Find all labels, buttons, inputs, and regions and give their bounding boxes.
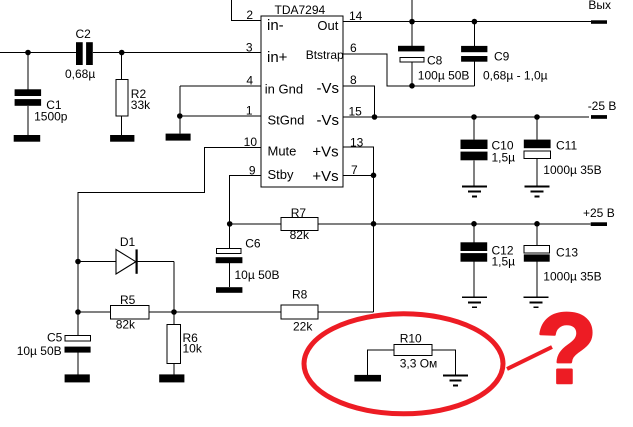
node -Vs/C10 junction xyxy=(471,114,477,120)
svg-text:-25 В: -25 В xyxy=(588,99,617,113)
svg-text:2: 2 xyxy=(246,8,253,22)
capacitor C10 xyxy=(461,117,516,186)
svg-text:C9: C9 xyxy=(494,50,510,64)
svg-text:10k: 10k xyxy=(183,341,203,355)
svg-text:C11: C11 xyxy=(556,139,577,153)
ground C12 xyxy=(462,297,487,307)
node out/C9 junction xyxy=(472,19,478,25)
svg-text:in+: in+ xyxy=(267,49,288,66)
svg-text:3,3 Ом: 3,3 Ом xyxy=(400,356,438,370)
ground C11 xyxy=(525,186,550,196)
wire pin 6 Btstrap path xyxy=(343,54,475,86)
terminal +25 В xyxy=(591,222,607,226)
node pin7 junction xyxy=(371,173,377,179)
wire pin 7 xyxy=(343,174,374,176)
capacitor C6 xyxy=(216,224,280,287)
svg-text:C5: C5 xyxy=(47,331,63,345)
ground C1 xyxy=(14,135,41,142)
svg-text:Mute: Mute xyxy=(268,144,297,159)
ground R2 xyxy=(110,135,134,142)
node +rail/C12 junction xyxy=(471,221,477,227)
node R5/R6/R8 junction xyxy=(171,309,177,315)
resistor R10 xyxy=(368,331,456,375)
svg-text:8: 8 xyxy=(350,73,357,87)
svg-text:C8: C8 xyxy=(427,54,443,68)
svg-text:-Vs: -Vs xyxy=(317,112,340,129)
wire +Vs rail right of R7 xyxy=(318,223,591,225)
svg-text:TDA7294: TDA7294 xyxy=(275,3,326,17)
node -Vs/C11 junction xyxy=(534,114,540,120)
svg-text:15: 15 xyxy=(349,105,363,119)
wire pin 8 path to -Vs rail xyxy=(343,86,375,117)
svg-text:+Vs: +Vs xyxy=(312,143,338,160)
svg-text:10µ 50В: 10µ 50В xyxy=(17,344,62,358)
wire +Vs rail / R7 line left segment xyxy=(230,223,281,225)
ground C13 xyxy=(524,297,549,307)
node -Vs rail / pin8 junction xyxy=(372,114,378,120)
resistor R2 xyxy=(116,53,151,136)
svg-text:in Gnd: in Gnd xyxy=(265,82,303,97)
capacitor C12 xyxy=(461,224,516,297)
svg-text:D1: D1 xyxy=(120,235,136,249)
svg-text:14: 14 xyxy=(349,9,363,23)
node A: junction input/C1 xyxy=(25,50,31,56)
ground C6 xyxy=(216,287,242,293)
wire vertical joining pins 4 and 1 to ground xyxy=(179,86,181,134)
capacitor C9 xyxy=(461,22,548,86)
resistor R6 xyxy=(167,312,203,374)
svg-text:1000µ 35В: 1000µ 35В xyxy=(543,270,601,284)
svg-text:Вых: Вых xyxy=(588,0,611,12)
svg-text:4: 4 xyxy=(246,74,253,88)
svg-text:1000µ 35В: 1000µ 35В xyxy=(543,163,601,177)
svg-text:R5: R5 xyxy=(120,293,136,307)
node B: junction input/R2 xyxy=(119,50,125,56)
wire pin 13 path xyxy=(343,147,374,312)
node +rail/C13 junction xyxy=(534,221,540,227)
op-amp U1 TDA7294 body xyxy=(261,16,343,187)
node +rail/R8 vertical junction xyxy=(371,221,377,227)
svg-text:0,68µ - 1,0µ: 0,68µ - 1,0µ xyxy=(483,68,548,82)
svg-text:Stby: Stby xyxy=(268,167,295,182)
wire pin 9 Stby path xyxy=(230,175,261,224)
terminal Вых xyxy=(591,20,607,24)
capacitor C11 xyxy=(524,117,602,186)
wire pin 1 StGnd xyxy=(180,115,261,117)
svg-text:StGnd: StGnd xyxy=(268,113,305,128)
svg-text:10µ 50В: 10µ 50В xyxy=(235,268,280,282)
svg-text:0,68µ: 0,68µ xyxy=(65,67,95,81)
red ellipse annotation xyxy=(304,314,503,414)
svg-text:R10: R10 xyxy=(400,331,422,345)
svg-text:C2: C2 xyxy=(76,27,92,41)
red callout line xyxy=(507,347,552,369)
svg-text:3: 3 xyxy=(246,41,253,55)
node StGnd junction xyxy=(177,113,183,119)
svg-text:22k: 22k xyxy=(293,320,313,334)
svg-text:Out: Out xyxy=(317,18,338,33)
terminal -25 В xyxy=(591,115,607,119)
wire pin 15 -Vs rail xyxy=(343,116,589,118)
wire: main input line right segment to pin 3 xyxy=(93,52,261,54)
svg-text:1,5µ: 1,5µ xyxy=(492,255,516,269)
svg-text:82k: 82k xyxy=(116,318,136,332)
svg-text:1,5µ: 1,5µ xyxy=(492,151,516,165)
svg-text:100µ 50В: 100µ 50В xyxy=(418,68,470,82)
resistor R8 xyxy=(174,288,374,334)
wire pin 2 in- stub up to top edge xyxy=(231,0,260,21)
wire stub up from out rail (cropped top) xyxy=(411,0,413,22)
svg-text:+Vs: +Vs xyxy=(312,168,338,185)
capacitor C13 xyxy=(524,224,602,297)
wire pin 4 in Gnd xyxy=(180,85,261,87)
svg-text:R7: R7 xyxy=(291,206,307,220)
ground C10 xyxy=(462,186,487,196)
node out/C8 junction xyxy=(409,19,415,25)
ground R6 xyxy=(159,374,184,382)
capacitor C1 xyxy=(15,53,68,136)
wire pin 10 Mute path xyxy=(78,147,261,335)
node D1/Mute junction xyxy=(75,259,81,265)
ground StGnd xyxy=(166,134,191,141)
node C8 bottom junction xyxy=(409,83,415,89)
capacitor C5 xyxy=(17,331,91,375)
node R5 left junction xyxy=(75,309,81,315)
svg-text:?: ? xyxy=(536,293,597,405)
svg-text:in-: in- xyxy=(267,17,284,34)
resistor R7 xyxy=(281,206,318,242)
capacitor C8 xyxy=(398,22,469,86)
svg-text:C6: C6 xyxy=(245,237,261,251)
capacitor C2 xyxy=(65,27,95,81)
svg-text:6: 6 xyxy=(350,41,357,55)
svg-text:Btstrap: Btstrap xyxy=(306,48,344,62)
node C6/R7 junction xyxy=(227,221,233,227)
resistor R5 xyxy=(78,293,174,332)
wire D1 cathode down to R8 line xyxy=(173,262,175,313)
svg-text:+25 В: +25 В xyxy=(583,206,615,220)
svg-text:1: 1 xyxy=(246,104,253,118)
ground C5 xyxy=(65,374,90,382)
diode D1 xyxy=(78,235,174,274)
svg-text:R8: R8 xyxy=(292,288,308,302)
wire: main input line left segment xyxy=(0,52,76,54)
svg-text:1500p: 1500p xyxy=(34,110,68,124)
svg-text:33k: 33k xyxy=(131,98,151,112)
svg-text:82k: 82k xyxy=(290,228,310,242)
ground R10 right (3-line) xyxy=(443,375,468,385)
ground R10 left (bar) xyxy=(354,375,381,382)
wire pin 14 Out rail xyxy=(343,21,592,23)
svg-text:-Vs: -Vs xyxy=(317,80,340,97)
svg-text:C13: C13 xyxy=(556,246,578,260)
